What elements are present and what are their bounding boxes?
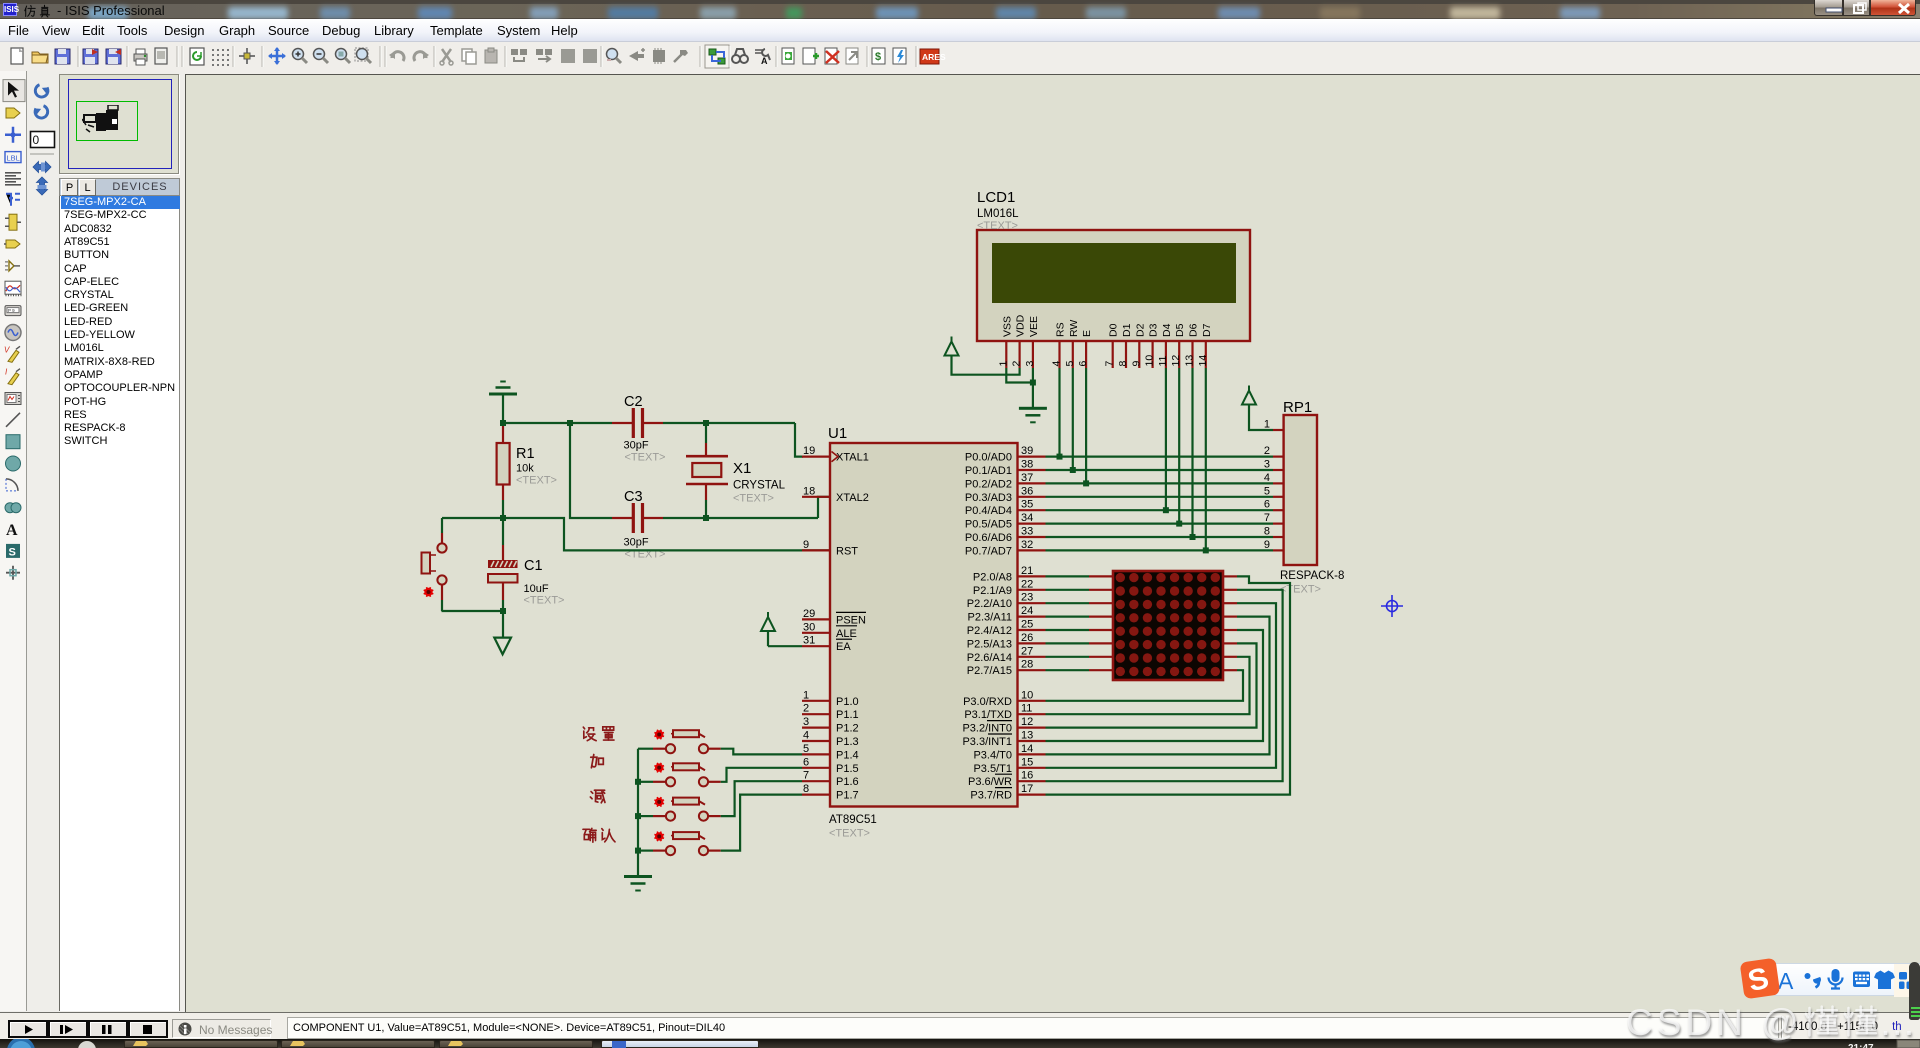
LCD pin name D5 xyxy=(1174,323,1186,337)
pin 37 (P0.2/AD2) stub xyxy=(1018,482,1046,484)
pin 19 (XTAL1) stub xyxy=(802,456,830,458)
RP1 pin number 1 xyxy=(1264,419,1270,431)
node junction at (1165.9,510.2) xyxy=(1163,507,1169,513)
pin number 14 xyxy=(1021,743,1033,755)
wire K2 to P1.5 xyxy=(721,768,802,782)
wire LCD pin 13 down to P0 bus xyxy=(1191,368,1193,537)
pin 15 (P3.5/T1) stub xyxy=(1018,767,1046,769)
pin 10 (P3.0/RXD) stub xyxy=(1018,700,1046,702)
pin number 9 xyxy=(803,539,809,551)
label RP1 xyxy=(1283,399,1312,416)
LCD pin 9 (D2) stub xyxy=(1138,341,1140,368)
pin 2 (P1.1) stub xyxy=(802,713,830,715)
pin number 36 xyxy=(1021,485,1033,497)
LCD pin name D6 xyxy=(1188,323,1200,337)
matrix left pin row 6 stub xyxy=(1089,642,1113,644)
svg-text:ALE: ALE xyxy=(836,628,857,640)
pin number 28 xyxy=(1021,659,1033,671)
LCD pin number 12 xyxy=(1170,355,1182,367)
LCD pin number 7 xyxy=(1104,361,1116,367)
svg-text:D3: D3 xyxy=(1148,323,1160,337)
node junction at (1072.8,470) xyxy=(1070,467,1076,473)
label X1 xyxy=(733,460,751,477)
wire LCD pin 6 down to P0 bus xyxy=(1085,368,1087,483)
pin number 25 xyxy=(1021,619,1033,631)
wire P2.1 to matrix xyxy=(1046,589,1090,591)
pin 8 (P1.7) stub xyxy=(802,793,830,795)
pin name P2.1/A9 xyxy=(973,585,1012,597)
wire P0.4 to RP1 pin 6 xyxy=(1046,509,1274,511)
power arrow LCD VDD xyxy=(945,337,959,356)
LCD pin 8 (D1) stub xyxy=(1125,341,1127,368)
LCD pin number 1 xyxy=(997,361,1009,367)
wire RST net xyxy=(442,518,830,550)
pin 35 (P0.4/AD4) stub xyxy=(1018,509,1046,511)
pin 17 (P3.7/RD) stub xyxy=(1018,793,1046,795)
capacitor C1 electrolytic xyxy=(488,518,518,611)
pin name P0.5/AD5 xyxy=(965,519,1012,531)
pin name P1.0 xyxy=(836,696,859,708)
pin number 18 xyxy=(803,485,815,497)
svg-text:3: 3 xyxy=(1024,361,1036,367)
svg-text:D4: D4 xyxy=(1161,323,1173,337)
pin 32 (P0.7/AD7) stub xyxy=(1018,549,1046,551)
button label 3 xyxy=(590,790,605,803)
svg-text:2: 2 xyxy=(1264,445,1270,457)
svg-text:33: 33 xyxy=(1021,526,1033,538)
label <TEXT> RP1 xyxy=(1280,584,1321,596)
svg-text:P3.0/RXD: P3.0/RXD xyxy=(963,696,1012,708)
svg-text:U1: U1 xyxy=(828,425,847,442)
svg-text:D2: D2 xyxy=(1134,323,1146,337)
label R1 xyxy=(516,446,535,462)
pin name P1.3 xyxy=(836,736,859,748)
IC U1 AT89C51 body xyxy=(830,443,1018,807)
pin number 19 xyxy=(803,445,815,457)
LCD pin number 6 xyxy=(1077,361,1089,367)
label LCD1 xyxy=(977,189,1015,206)
push-button K4 xyxy=(653,832,721,855)
wire K1 left to bus xyxy=(638,748,653,750)
red actuator marker reset button xyxy=(424,587,434,597)
matrix left pin row 2 stub xyxy=(1089,589,1113,591)
svg-text:XTAL2: XTAL2 xyxy=(836,492,869,504)
pin name P0.6/AD6 xyxy=(965,532,1012,544)
RP1 pin number 2 xyxy=(1264,445,1270,457)
ground arrow below C1 xyxy=(494,638,511,655)
pin name P1.1 xyxy=(836,709,859,721)
svg-text:10uF: 10uF xyxy=(524,583,549,595)
svg-text:12: 12 xyxy=(1021,716,1033,728)
svg-text:5: 5 xyxy=(1064,361,1076,367)
svg-text:16: 16 xyxy=(1021,770,1033,782)
pin 14 (P3.4/T0) stub xyxy=(1018,753,1046,755)
pin 23 (P2.2/A10) stub xyxy=(1018,602,1046,604)
pin number 31 xyxy=(803,635,815,647)
svg-text:28: 28 xyxy=(1021,659,1033,671)
label C3 xyxy=(624,489,643,505)
push-button K2 xyxy=(653,763,721,786)
pin 29 (PSEN) stub xyxy=(802,618,830,620)
RP1 pin 2 stub xyxy=(1273,456,1284,458)
pin name P0.3/AD3 xyxy=(965,492,1012,504)
svg-text:19: 19 xyxy=(803,445,815,457)
power arrow EA xyxy=(761,612,775,646)
svg-text:4: 4 xyxy=(803,730,809,742)
pin name P2.4/A12 xyxy=(967,625,1012,637)
red actuator marker K1 xyxy=(654,730,664,740)
svg-text:38: 38 xyxy=(1021,459,1033,471)
svg-text:P1.5: P1.5 xyxy=(836,763,859,775)
pin number 5 xyxy=(803,743,809,755)
RP1 pin 7 stub xyxy=(1273,522,1284,524)
LCD pin 3 (VEE) stub xyxy=(1032,341,1034,368)
value CRYSTAL xyxy=(733,480,786,492)
LCD LCD1 LM016L body xyxy=(977,230,1250,341)
pin number 39 xyxy=(1021,445,1033,457)
pin name ALE xyxy=(836,626,857,640)
svg-text:AT89C51: AT89C51 xyxy=(829,814,877,826)
ground below buttons xyxy=(624,875,652,892)
wire P0.5 to RP1 pin 7 xyxy=(1046,522,1274,524)
svg-text:18: 18 xyxy=(803,485,815,497)
pin number 16 xyxy=(1021,770,1033,782)
pin name P0.0/AD0 xyxy=(965,452,1012,464)
LCD pin 13 (D6) stub xyxy=(1191,341,1193,368)
svg-text:P3.2/INT0: P3.2/INT0 xyxy=(962,723,1012,735)
pin number 12 xyxy=(1021,716,1033,728)
XTAL1 clock chevron xyxy=(832,452,839,462)
RP1 pin 5 stub xyxy=(1273,496,1284,498)
pin 13 (P3.3/INT1) stub xyxy=(1018,740,1046,742)
svg-text:P1.4: P1.4 xyxy=(836,749,859,761)
pin 39 (P0.0/AD0) stub xyxy=(1018,456,1046,458)
svg-text:VSS: VSS xyxy=(1001,316,1013,337)
wire K1 to P1.4 xyxy=(721,749,802,755)
label <TEXT> C2 xyxy=(625,452,666,464)
svg-text:5: 5 xyxy=(803,743,809,755)
svg-text:P2.7/A15: P2.7/A15 xyxy=(967,665,1012,677)
pin 36 (P0.3/AD3) stub xyxy=(1018,496,1046,498)
pin 11 (P3.1/TXD) stub xyxy=(1018,713,1046,715)
svg-text:D6: D6 xyxy=(1188,323,1200,337)
mouse crosshair cursor xyxy=(1381,595,1403,617)
svg-text:3: 3 xyxy=(803,716,809,728)
RP1 pin 4 stub xyxy=(1273,482,1284,484)
pin 3 (P1.2) stub xyxy=(802,726,830,728)
pin number 13 xyxy=(1021,730,1033,742)
pin number 11 xyxy=(1021,703,1032,715)
svg-text:14: 14 xyxy=(1197,355,1209,367)
svg-text:36: 36 xyxy=(1021,485,1033,497)
wire matrix row 5 to P3.3 xyxy=(1046,630,1264,741)
node junction X1 bottom xyxy=(703,515,709,521)
RP1 pin number 8 xyxy=(1264,526,1270,538)
wire P0.1 to RP1 pin 3 xyxy=(1046,469,1274,471)
svg-text:31: 31 xyxy=(803,635,815,647)
node junction bus K4 xyxy=(635,848,641,854)
svg-text:22: 22 xyxy=(1021,578,1033,590)
button label 1 xyxy=(583,727,614,741)
crystal X1 xyxy=(686,423,728,518)
svg-text:<TEXT>: <TEXT> xyxy=(1280,584,1321,596)
svg-text:29: 29 xyxy=(803,608,815,620)
pin number 32 xyxy=(1021,539,1033,551)
value 10k xyxy=(516,463,534,475)
svg-text:10: 10 xyxy=(1144,355,1156,367)
LCD pin number 9 xyxy=(1130,361,1142,367)
svg-text:1: 1 xyxy=(1264,419,1270,431)
svg-text:6: 6 xyxy=(803,756,809,768)
node junction bus K2 xyxy=(635,779,641,785)
LCD screen xyxy=(992,243,1236,303)
RP1 pin number 9 xyxy=(1264,539,1270,551)
power arrow RP1 xyxy=(1242,386,1256,405)
svg-text:1: 1 xyxy=(803,689,809,701)
svg-text:P2.2/A10: P2.2/A10 xyxy=(967,598,1012,610)
ground (mirrored) above R1 xyxy=(489,381,517,424)
svg-text:<TEXT>: <TEXT> xyxy=(625,452,666,464)
svg-text:8: 8 xyxy=(1117,361,1129,367)
value 10uF xyxy=(524,583,549,595)
resistor pack RP1 body xyxy=(1284,415,1317,565)
pin name P0.7/AD7 xyxy=(965,545,1012,557)
label <TEXT> X1 xyxy=(733,493,774,505)
pin name EA xyxy=(836,639,852,653)
push-button reset xyxy=(422,518,447,611)
label C2 xyxy=(624,394,643,410)
node junction X1 top xyxy=(703,420,709,426)
pin name P0.1/AD1 xyxy=(965,465,1012,477)
LED matrix 8x8 body xyxy=(1113,571,1223,680)
svg-text:9: 9 xyxy=(1130,361,1142,367)
pin name P2.5/A13 xyxy=(967,638,1012,650)
RP1 pin number 6 xyxy=(1264,499,1270,511)
svg-text:P1.2: P1.2 xyxy=(836,723,859,735)
pin 26 (P2.5/A13) stub xyxy=(1018,642,1046,644)
LCD pin number 11 xyxy=(1157,355,1169,366)
pin 22 (P2.1/A9) stub xyxy=(1018,589,1046,591)
node junction at (1205.8,550.4) xyxy=(1203,547,1209,553)
pin 25 (P2.4/A12) stub xyxy=(1018,629,1046,631)
label <TEXT> LCD1 xyxy=(977,220,1018,232)
svg-text:PSEN: PSEN xyxy=(836,614,866,626)
pin 7 (P1.6) stub xyxy=(802,780,830,782)
pin number 26 xyxy=(1021,632,1033,644)
label <TEXT> R1 xyxy=(516,475,557,487)
pin number 33 xyxy=(1021,526,1033,538)
svg-text:P0.7/AD7: P0.7/AD7 xyxy=(965,545,1012,557)
svg-text:9: 9 xyxy=(803,539,809,551)
RP1 pin 9 stub xyxy=(1273,549,1284,551)
svg-text:7: 7 xyxy=(803,770,809,782)
wire matrix row 1 to P3.7 xyxy=(1046,576,1291,794)
pin 30 (ALE) stub xyxy=(802,632,830,634)
pin name P3.1/TXD xyxy=(964,709,1012,721)
pin 4 (P1.3) stub xyxy=(802,740,830,742)
LCD pin name RW xyxy=(1068,320,1080,337)
LCD pin name D7 xyxy=(1201,323,1213,337)
pin number 38 xyxy=(1021,459,1033,471)
LCD pin name D0 xyxy=(1108,323,1120,337)
svg-text:11: 11 xyxy=(1157,355,1169,366)
pin number 4 xyxy=(803,730,809,742)
red actuator marker K2 xyxy=(654,763,664,773)
svg-text:30pF: 30pF xyxy=(624,440,649,452)
pin name XTAL2 xyxy=(836,492,869,504)
LCD pin number 4 xyxy=(1051,361,1063,367)
node junction C1 bottom xyxy=(500,608,506,614)
wire matrix row 3 to P3.5 xyxy=(1046,603,1277,768)
ground below LCD VEE xyxy=(1019,407,1047,424)
pin number 23 xyxy=(1021,592,1033,604)
wire P0.7 to RP1 pin 9 xyxy=(1046,549,1274,551)
pin number 8 xyxy=(803,783,809,795)
wire P2.7 to matrix xyxy=(1046,669,1090,671)
RP1 pin number 3 xyxy=(1264,459,1270,471)
svg-text:10: 10 xyxy=(1021,689,1033,701)
svg-text:P3.6/WR: P3.6/WR xyxy=(968,776,1012,788)
label <TEXT> C1 xyxy=(524,595,565,607)
svg-text:RW: RW xyxy=(1068,320,1080,337)
node junction overlay (503,518) xyxy=(500,515,506,521)
pin name P1.2 xyxy=(836,723,859,735)
matrix right pin row 7 stub xyxy=(1223,656,1237,658)
svg-text:P1.1: P1.1 xyxy=(836,709,859,721)
svg-text:P2.1/A9: P2.1/A9 xyxy=(973,585,1012,597)
node junction VEE xyxy=(1030,380,1036,386)
svg-text:12: 12 xyxy=(1170,355,1182,367)
svg-text:11: 11 xyxy=(1021,703,1032,715)
wire VSS to VEE ground xyxy=(1006,368,1033,408)
svg-text:P0.2/AD2: P0.2/AD2 xyxy=(965,478,1012,490)
pin number 22 xyxy=(1021,578,1033,590)
pin number 17 xyxy=(1021,783,1033,795)
svg-text:13: 13 xyxy=(1184,355,1196,367)
pin number 10 xyxy=(1021,689,1033,701)
button label 4 xyxy=(583,828,615,842)
pin number 6 xyxy=(803,756,809,768)
svg-text:C3: C3 xyxy=(624,489,643,505)
pin 18 (XTAL2) stub xyxy=(802,496,830,498)
wire P2.4 to matrix xyxy=(1046,629,1090,631)
svg-text:9: 9 xyxy=(1264,539,1270,551)
LCD pin number 10 xyxy=(1144,355,1156,367)
LCD pin 1 (VSS) stub xyxy=(1005,341,1007,368)
RP1 pin number 4 xyxy=(1264,472,1270,484)
pin 12 (P3.2/INT0) stub xyxy=(1018,726,1046,728)
svg-text:RP1: RP1 xyxy=(1283,399,1312,416)
RP1 pin 8 stub xyxy=(1273,536,1284,538)
pin name P2.0/A8 xyxy=(973,571,1012,583)
pin number 2 xyxy=(803,703,809,715)
LCD pin name E xyxy=(1081,330,1093,337)
pin 24 (P2.3/A11) stub xyxy=(1018,615,1046,617)
svg-text:S: S xyxy=(1745,962,1772,999)
node junction branch xyxy=(567,420,573,426)
pin number 24 xyxy=(1021,605,1033,617)
matrix left pin row 3 stub xyxy=(1089,602,1113,604)
label <TEXT> U1 xyxy=(829,828,870,840)
svg-text:2: 2 xyxy=(1011,361,1023,367)
svg-text:8: 8 xyxy=(803,783,809,795)
label AT89C51 xyxy=(829,814,877,826)
svg-text:34: 34 xyxy=(1021,512,1033,524)
LCD pin name D2 xyxy=(1134,323,1146,337)
svg-text:6: 6 xyxy=(1264,499,1270,511)
wire P2.3 to matrix xyxy=(1046,615,1090,617)
node junction overlay (503,423) xyxy=(500,420,506,426)
pin number 3 xyxy=(803,716,809,728)
svg-text:6: 6 xyxy=(1077,361,1089,367)
pin name RST xyxy=(836,545,858,557)
pin name PSEN xyxy=(836,612,866,626)
pin 5 (P1.4) stub xyxy=(802,753,830,755)
svg-text:C1: C1 xyxy=(524,558,543,574)
node junction overlay (503,611) xyxy=(500,608,506,614)
wire XTAL2 branch xyxy=(570,423,830,518)
RP1 pin number 5 xyxy=(1264,485,1270,497)
svg-text:30pF: 30pF xyxy=(624,537,649,549)
wire P2.2 to matrix xyxy=(1046,602,1090,604)
svg-text:1: 1 xyxy=(997,361,1009,367)
svg-text:P0.0/AD0: P0.0/AD0 xyxy=(965,452,1012,464)
wire XTAL1 net top xyxy=(503,423,803,457)
wire LCD pin 12 down to P0 bus xyxy=(1178,368,1180,524)
LCD pin name D4 xyxy=(1161,323,1173,337)
pin name P3.6/WR xyxy=(968,774,1012,788)
wire button ground bus xyxy=(637,749,639,876)
svg-text:39: 39 xyxy=(1021,445,1033,457)
svg-text:5: 5 xyxy=(1264,485,1270,497)
matrix left pin row 5 stub xyxy=(1089,629,1113,631)
svg-text:P1.3: P1.3 xyxy=(836,736,859,748)
svg-text:7: 7 xyxy=(1104,361,1116,367)
svg-text:VEE: VEE xyxy=(1028,316,1040,337)
red actuator marker K3 xyxy=(654,797,664,807)
svg-text:D5: D5 xyxy=(1174,323,1186,337)
red actuator marker K4 xyxy=(654,832,664,842)
svg-text:P0.6/AD6: P0.6/AD6 xyxy=(965,532,1012,544)
capacitor C2 xyxy=(612,408,663,438)
svg-text:P1.7: P1.7 xyxy=(836,790,859,802)
pin number 37 xyxy=(1021,472,1033,484)
LCD pin 2 (VDD) stub xyxy=(1018,341,1020,368)
svg-text:X1: X1 xyxy=(733,460,751,477)
LCD pin name RS xyxy=(1055,322,1067,337)
node junction at (1086.1,483.4) xyxy=(1083,480,1089,486)
wire K3 to P1.6 xyxy=(721,781,802,816)
wire K2 left to bus xyxy=(638,781,653,783)
node junction R1 bottom xyxy=(500,515,506,521)
svg-text:P3.3/INT1: P3.3/INT1 xyxy=(962,736,1012,748)
pin name P2.7/A15 xyxy=(967,665,1012,677)
svg-text:P1.6: P1.6 xyxy=(836,776,859,788)
svg-text:27: 27 xyxy=(1021,645,1033,657)
pin number 1 xyxy=(803,689,809,701)
node junction at (1059.5,456.6) xyxy=(1057,454,1063,460)
svg-text:P2.4/A12: P2.4/A12 xyxy=(967,625,1012,637)
svg-text:CRYSTAL: CRYSTAL xyxy=(733,480,786,492)
pin number 21 xyxy=(1021,565,1033,577)
matrix right pin row 1 stub xyxy=(1223,575,1237,577)
pin 34 (P0.5/AD5) stub xyxy=(1018,522,1046,524)
pin name P2.2/A10 xyxy=(967,598,1012,610)
pin name P1.4 xyxy=(836,749,859,761)
pin 31 (EA) stub xyxy=(802,645,830,647)
pin 38 (P0.1/AD1) stub xyxy=(1018,469,1046,471)
RP1 pin 1 stub xyxy=(1273,429,1284,431)
